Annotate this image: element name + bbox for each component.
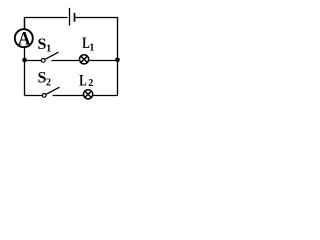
svg-text:1: 1: [46, 44, 51, 55]
svg-text:1: 1: [89, 43, 94, 54]
label S2: [38, 70, 52, 89]
label L1: [82, 35, 94, 54]
switch S1 blade: [45, 52, 58, 59]
wire bottom-left segment: [25, 95, 43, 97]
switch S1 pivot contact: [41, 59, 45, 63]
wire bottom segment from switch to right corner: [53, 95, 118, 97]
wire top-right segment: [75, 18, 117, 96]
wire top-left segment: [25, 18, 68, 31]
node junction dot left (branch 1): [22, 58, 27, 63]
ammeter A1: [15, 29, 33, 50]
svg-text:S: S: [38, 36, 47, 53]
lamp L1: [80, 55, 89, 64]
svg-text:A: A: [18, 29, 31, 50]
battery B1 long positive plate: [69, 8, 71, 26]
wire middle branch left of switch: [25, 60, 42, 62]
svg-text:2: 2: [46, 78, 51, 89]
lamp L2: [84, 90, 93, 99]
svg-text:L: L: [79, 73, 87, 90]
switch S2 blade: [46, 87, 59, 94]
node junction dot right (branch 1): [115, 58, 120, 63]
svg-text:2: 2: [88, 78, 93, 89]
battery B1 short negative plate: [74, 13, 76, 22]
label L2: [79, 73, 93, 90]
wire middle branch from switch to right side: [52, 60, 118, 62]
wire left side through ammeter down to bottom: [24, 18, 26, 96]
switch S2 pivot contact: [42, 94, 46, 98]
label S1: [38, 36, 52, 55]
